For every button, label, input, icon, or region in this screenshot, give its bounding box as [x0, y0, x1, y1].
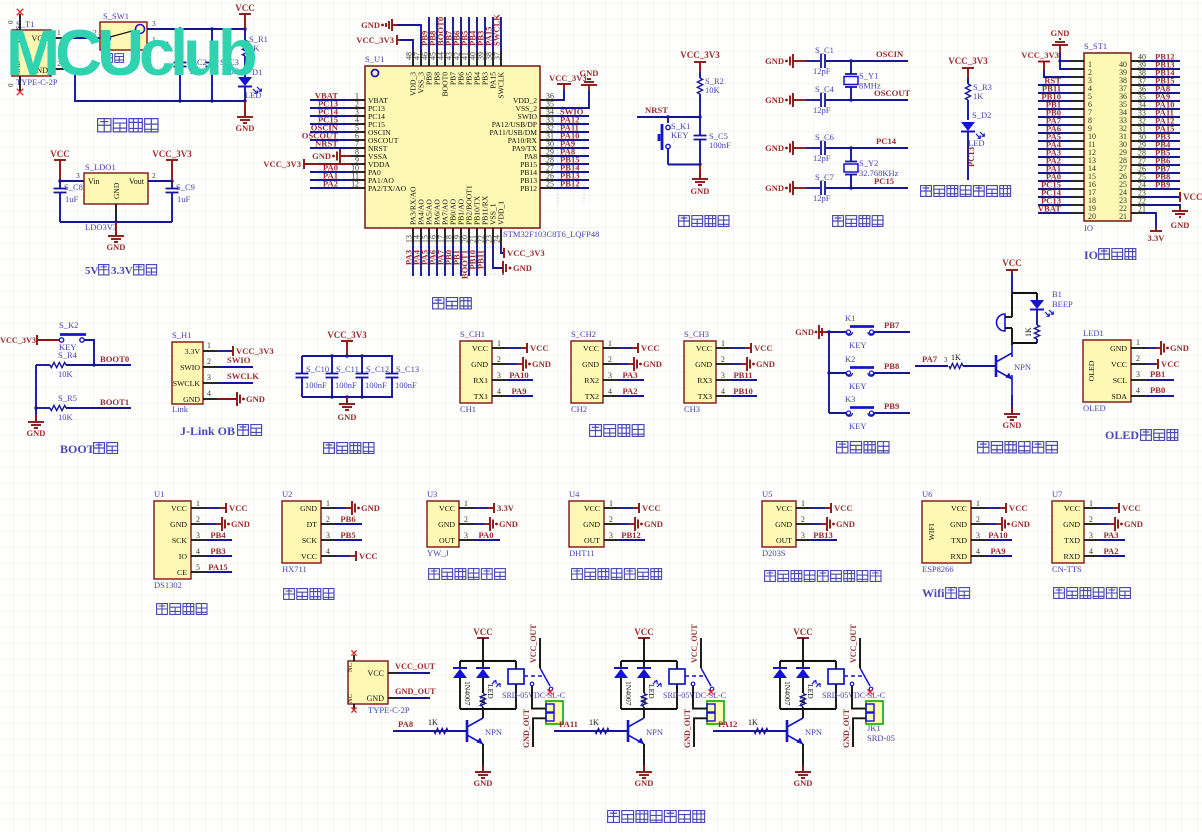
svg-text:S_C6: S_C6: [815, 132, 834, 142]
pin 47 VSS_3: [413, 51, 426, 94]
pin 40 PB4: [469, 51, 482, 85]
pin 22 PB11/RX: [477, 195, 490, 244]
title 串口电路: [590, 425, 644, 437]
pin 2 GND: [459, 515, 474, 524]
pin 4 TX2: [603, 387, 618, 396]
wire net PB7: [874, 320, 910, 332]
IC S_CH1 CH1: [460, 329, 492, 414]
svg-text:5V: 5V: [85, 265, 99, 277]
pin 7 left: [1070, 108, 1092, 117]
svg-text:S_C4: S_C4: [815, 84, 835, 94]
svg-text:1: 1: [609, 499, 613, 508]
pin 31 right: [1119, 125, 1146, 142]
wire net PC15: [1038, 180, 1070, 190]
svg-text:GND: GND: [1063, 520, 1080, 529]
svg-text:8MHz: 8MHz: [859, 81, 881, 91]
svg-text:SWIO: SWIO: [180, 363, 200, 372]
svg-text:3.3V: 3.3V: [185, 347, 201, 356]
resistor 1K relay PA8: [478, 678, 487, 709]
svg-text:2: 2: [721, 355, 725, 364]
svg-text:SCL: SCL: [1113, 376, 1128, 385]
IC U7 CN-TTS: [1052, 489, 1084, 574]
svg-text:IO: IO: [1084, 223, 1093, 233]
connector screw terminal PA12: [866, 701, 883, 724]
wire key K2 left: [829, 372, 846, 374]
power VCC at U5 pin1: [811, 503, 853, 513]
svg-text:Wifi: Wifi: [922, 586, 945, 600]
svg-text:U3: U3: [427, 489, 437, 499]
ground GND at VSS_1 pin23: [493, 244, 532, 275]
title 液位检测模块: [429, 569, 506, 580]
svg-text:1: 1: [721, 339, 725, 348]
pin 3 RX2: [603, 371, 618, 380]
svg-text:PB11: PB11: [733, 370, 752, 380]
ground GND at VSS_2 pin35: [554, 68, 598, 108]
svg-text:NPN: NPN: [1014, 362, 1031, 372]
wire net PB12: [619, 530, 645, 540]
svg-text:S_R4: S_R4: [58, 350, 78, 360]
pin 7 NRST: [351, 140, 388, 154]
svg-text:S_CH3: S_CH3: [684, 329, 709, 339]
svg-text:VCC_3V3: VCC_3V3: [680, 50, 720, 60]
svg-text:VCC: VCC: [301, 552, 317, 561]
svg-text:4: 4: [497, 387, 501, 396]
power VCC relay cell PA11: [634, 627, 654, 661]
svg-text:1: 1: [1089, 499, 1093, 508]
pin 19 left: [1070, 204, 1096, 213]
svg-text:KEY: KEY: [849, 381, 866, 391]
wire relay top rail PA11: [621, 660, 677, 662]
svg-text:GND: GND: [438, 520, 455, 529]
svg-text:2: 2: [1136, 354, 1140, 363]
power VCC_3V3 at VDDA pin9: [263, 159, 351, 169]
svg-text:3: 3: [976, 531, 980, 540]
svg-text:NPN: NPN: [646, 727, 663, 737]
pin 6 left: [1070, 100, 1092, 109]
pin 25 PB12: [520, 180, 554, 194]
LED D1: [238, 67, 262, 103]
svg-text:3: 3: [326, 531, 330, 540]
wire net PB10: [1038, 92, 1070, 102]
svg-text:20: 20: [1088, 212, 1096, 221]
svg-text:RXD: RXD: [951, 552, 968, 561]
power VCC_3V3 IO pin3: [1021, 50, 1070, 77]
wire net SWCLK: [492, 14, 502, 51]
svg-text:CH3: CH3: [684, 404, 700, 414]
wire net PA3: [1099, 530, 1125, 540]
svg-text:S_ST1: S_ST1: [1084, 41, 1107, 51]
svg-text:3: 3: [76, 171, 80, 180]
pin 31 PA10/RX: [508, 132, 554, 146]
svg-text:RX2: RX2: [584, 376, 599, 385]
svg-text:4: 4: [1089, 547, 1093, 556]
pin 46 PB9: [421, 51, 434, 85]
svg-text:S_Y1: S_Y1: [859, 71, 878, 81]
IC S_CH2 CH2: [571, 329, 603, 414]
svg-text:GND: GND: [765, 56, 784, 66]
svg-text:GND: GND: [532, 359, 551, 369]
IC LED1 OLED display: [1083, 328, 1131, 413]
svg-text:SCK: SCK: [172, 536, 188, 545]
pin 16 PA6/AO: [429, 199, 442, 244]
svg-text:GND: GND: [583, 520, 600, 529]
resistor S_R3 1K: [965, 78, 992, 120]
connector TYPE-C-2P relay supply: [347, 661, 410, 715]
svg-text:PA9: PA9: [990, 546, 1005, 556]
wire net VBAT: [310, 91, 351, 101]
pin 25 right: [1119, 173, 1146, 190]
pin 2 GND: [796, 515, 811, 524]
svg-text:VCC: VCC: [473, 627, 493, 637]
svg-text:VCC: VCC: [1183, 192, 1202, 202]
svg-text:PB12: PB12: [560, 179, 580, 189]
svg-text:12pF: 12pF: [813, 105, 831, 115]
wire net PB8: [1145, 172, 1180, 182]
title 5V转3.3V电路: [85, 265, 157, 277]
diode 1N4007 PA12: [773, 661, 792, 709]
pin 23 right: [1119, 189, 1146, 206]
svg-text:YW_J: YW_J: [427, 548, 449, 558]
power VCC relay cell PA12: [793, 627, 813, 661]
pin 12 left: [1070, 148, 1096, 157]
pin 2 GND: [971, 515, 986, 524]
svg-text:VCC: VCC: [584, 504, 600, 513]
wire net PB4: [206, 530, 232, 540]
svg-text:GND: GND: [795, 327, 814, 337]
power VCC_3V3 at VDD_2 pin36: [549, 73, 587, 100]
transistor NPN alarm: [996, 345, 1031, 395]
power VCC at S_CH3 pin1: [731, 343, 773, 353]
svg-text:VCC: VCC: [1111, 360, 1127, 369]
pin 10 left: [1070, 132, 1096, 141]
wire relay output bottom GND_OUT PA12: [842, 708, 866, 748]
pin 36 right: [1119, 85, 1146, 102]
svg-text:GND: GND: [1011, 519, 1030, 529]
svg-text:SWIO: SWIO: [227, 355, 251, 365]
svg-text:TXD: TXD: [951, 536, 967, 545]
svg-text:3.3V: 3.3V: [1148, 233, 1166, 243]
svg-text:ESP8266: ESP8266: [922, 564, 954, 574]
pin 2 GND: [492, 355, 507, 364]
svg-text:32.768KHz: 32.768KHz: [859, 168, 899, 178]
svg-text:S_H1: S_H1: [172, 330, 191, 340]
pin 2 GND: [604, 515, 619, 524]
svg-text:100nF: 100nF: [305, 380, 327, 390]
title 晶振电路: [833, 216, 883, 227]
svg-text:U2: U2: [282, 489, 292, 499]
svg-text:OUT: OUT: [584, 536, 600, 545]
transistor NPN relay PA12: [787, 709, 822, 768]
wire relay output bottom GND_OUT PA8: [522, 708, 546, 748]
pin 26 PB13: [520, 172, 554, 186]
wire net PA11: [554, 123, 589, 133]
svg-text:GND: GND: [499, 519, 518, 529]
regulator S_LDO1 LDO3V3: [84, 162, 148, 232]
svg-text:VCC_3V3: VCC_3V3: [152, 149, 192, 159]
pin 48 VDD_3: [405, 51, 418, 96]
svg-text:10K: 10K: [58, 412, 74, 422]
svg-text:3: 3: [1089, 531, 1093, 540]
svg-text:KEY: KEY: [849, 340, 866, 350]
svg-text:3: 3: [464, 531, 468, 540]
no-connect switch pin1: [147, 35, 168, 48]
svg-text:OUT: OUT: [776, 536, 792, 545]
power VCC at U2 pin4: [336, 551, 378, 561]
power VCC relay cell PA8: [473, 627, 493, 661]
svg-text:GND: GND: [236, 123, 255, 133]
pin 4 IO: [191, 547, 206, 556]
wire relay top rail PA8: [460, 660, 516, 662]
svg-text:VCC: VCC: [583, 344, 599, 353]
pin 23 VSS_1: [485, 203, 498, 244]
pin 3 PC14: [351, 108, 385, 122]
title 声光报警电路: [978, 442, 1058, 453]
svg-text:KEY: KEY: [671, 130, 688, 140]
power VCC: [235, 3, 255, 29]
resistor 1K base alarm: [915, 353, 996, 369]
pin 4 VCC: [321, 547, 336, 556]
ground GND at U1 pin2: [206, 517, 250, 531]
power VCC at U4 pin1: [619, 503, 661, 513]
wire net PB9: [874, 401, 910, 413]
svg-text:S_C8: S_C8: [64, 182, 83, 192]
wire net PA10: [1145, 100, 1180, 110]
svg-text:VCC: VCC: [359, 551, 378, 561]
wire net PC14: [1038, 188, 1070, 198]
no-connect TYPE-C-2P bottom: [351, 704, 356, 713]
svg-text:GND: GND: [27, 428, 46, 438]
pin 44 BOOT0: [437, 51, 450, 96]
svg-text:VCC: VCC: [50, 149, 70, 159]
svg-text:JK1: JK1: [867, 723, 881, 733]
ground GND at S_C6: [765, 141, 806, 155]
power VCC alarm: [1002, 258, 1022, 293]
svg-text:GND_OUT: GND_OUT: [395, 687, 436, 696]
switch S_K2 KEY: [59, 320, 86, 352]
no-connect pin S_T1 bottom: [7, 76, 23, 95]
svg-text:VCC_3V3: VCC_3V3: [263, 159, 301, 169]
svg-text:GND: GND: [644, 519, 663, 529]
ground GND power block: [236, 101, 255, 133]
wire net OSCIN: [310, 123, 351, 133]
svg-text:LED: LED: [968, 138, 985, 148]
svg-text:PB12: PB12: [520, 184, 537, 193]
svg-text:1uF: 1uF: [177, 194, 191, 204]
svg-text:PB12: PB12: [621, 530, 641, 540]
svg-text:2: 2: [801, 515, 805, 524]
svg-text:TYPE-C-2P: TYPE-C-2P: [368, 705, 410, 715]
svg-text:1N4007: 1N4007: [783, 681, 792, 706]
svg-text:3: 3: [721, 371, 725, 380]
title J-Link OB接口: [180, 424, 262, 438]
svg-text:GND: GND: [338, 412, 357, 422]
svg-text:GND: GND: [312, 151, 331, 161]
title 主芯片: [433, 298, 472, 309]
svg-text:VBAT: VBAT: [1038, 204, 1062, 214]
svg-text:S_C1: S_C1: [815, 45, 834, 55]
wire net PA1: [310, 171, 351, 181]
title Wifi模块: [922, 586, 970, 600]
svg-text:GND: GND: [112, 182, 121, 199]
resistor S_R5 10K: [36, 393, 94, 422]
svg-text:MCUclub: MCUclub: [6, 16, 256, 89]
title 滤波电路: [324, 443, 374, 454]
pin 22 right: [1119, 197, 1146, 214]
net label PC14: [876, 136, 897, 146]
pin 2 GND: [603, 355, 618, 364]
pin 17 left: [1070, 188, 1096, 197]
svg-text:VCC: VCC: [472, 344, 488, 353]
pin 16 left: [1070, 180, 1096, 189]
power VCC_3V3 boot: [0, 335, 59, 345]
ground GND at VSSA pin8: [312, 149, 351, 163]
pin 9 left: [1070, 124, 1092, 133]
wire key K1 left: [829, 331, 846, 333]
pin 8 left: [1070, 116, 1092, 125]
wire net BOOT1: [94, 397, 131, 408]
svg-text:1K: 1K: [973, 91, 984, 101]
svg-text:PA8: PA8: [398, 719, 414, 729]
svg-text:VCC_OUT: VCC_OUT: [690, 624, 699, 663]
capacitor S_C6 12pF: [806, 132, 908, 163]
watermark MCUclub: [6, 16, 256, 89]
wire net PA11 base: [554, 718, 628, 734]
pin 8 VSSA: [351, 148, 388, 162]
svg-text:1: 1: [608, 339, 612, 348]
net label PC15: [874, 176, 894, 186]
svg-text:1: 1: [1136, 338, 1140, 347]
ground GND IO pin22: [1145, 205, 1189, 230]
svg-text:GND_OUT: GND_OUT: [683, 708, 692, 748]
wire relay bottom rail PA11: [621, 708, 677, 710]
wire net PB8: [428, 17, 438, 51]
title IO拓展口: [1084, 248, 1136, 262]
connector S_T1 TYPE-C-2P: [12, 19, 58, 87]
pin 3 OUT: [459, 531, 474, 540]
svg-text:VCC_3V3: VCC_3V3: [948, 56, 988, 66]
wire net PC13: [1038, 196, 1070, 206]
wire relay bottom rail PA12: [780, 708, 836, 710]
svg-text:VCC: VCC: [776, 504, 792, 513]
wire alarm top rail: [1012, 293, 1037, 316]
wire net PB10: [468, 244, 478, 276]
title 温湿度检测模块: [572, 569, 662, 580]
wire net PB14: [554, 163, 589, 173]
svg-text:K3: K3: [845, 394, 855, 404]
wire net PC14: [310, 107, 351, 117]
IC U4 DHT11: [569, 489, 604, 558]
svg-text:PA2: PA2: [323, 179, 338, 189]
pin 12 PA2/TX/AO: [351, 180, 407, 194]
pin 45 PB8: [429, 51, 442, 85]
no-connect pin S_T1 top: [7, 9, 23, 30]
pin 14 PA4/AO: [413, 199, 426, 244]
svg-text:5: 5: [196, 563, 200, 572]
power VCC for LDO: [50, 149, 70, 181]
pin 10 PA0: [351, 164, 381, 178]
pin 28 right: [1119, 149, 1146, 166]
svg-text:DHT11: DHT11: [569, 548, 595, 558]
pin 42 PB6: [453, 51, 466, 85]
pin 4 GND: [203, 389, 265, 406]
svg-text:BEEP: BEEP: [1052, 299, 1073, 309]
svg-text:PA12: PA12: [718, 719, 737, 729]
power VCC_3V3 filter: [327, 330, 367, 356]
pin 24 VDD_1: [493, 201, 506, 244]
svg-text:IO: IO: [1084, 248, 1098, 262]
wire net PA1: [1038, 164, 1070, 174]
power VCC_3V3 at VDD_1 pin24: [501, 244, 545, 258]
capacitor S_C11 100nF: [326, 356, 359, 397]
svg-text:2: 2: [326, 515, 330, 524]
relay contact switch PA11: [685, 624, 714, 695]
wire net PC13 indicator: [966, 132, 976, 180]
svg-text:DT: DT: [307, 520, 318, 529]
svg-text:S_U1: S_U1: [365, 54, 384, 64]
wire boot left rail: [34, 365, 37, 415]
svg-text:PB3: PB3: [210, 546, 225, 556]
pin 4 TX3: [716, 387, 731, 396]
svg-text:GND: GND: [231, 519, 250, 529]
svg-text:HX711: HX711: [282, 564, 307, 574]
pin 15 left: [1070, 172, 1096, 181]
wire net PB3: [206, 546, 232, 556]
svg-text:K2: K2: [845, 354, 855, 364]
pin 27 right: [1119, 157, 1146, 174]
connector S_H1 J-Link: [172, 330, 203, 414]
svg-text:GND: GND: [635, 778, 654, 788]
svg-text:3: 3: [196, 531, 200, 540]
svg-text:12pF: 12pF: [813, 66, 831, 76]
LED relay PA12: [796, 661, 820, 699]
svg-text:1: 1: [801, 499, 805, 508]
svg-text:CE: CE: [177, 568, 187, 577]
wire relay output top PA12: [852, 686, 866, 709]
pin 32 PA11/USB/DM: [489, 124, 554, 138]
wire net PA6: [1038, 124, 1070, 134]
wire net PB12: [554, 179, 589, 189]
wire net PB1: [452, 244, 462, 276]
svg-text:2: 2: [497, 355, 501, 364]
resistor 1K relay PA11: [639, 678, 648, 709]
svg-text:U4: U4: [569, 489, 580, 499]
svg-text:VCC_OUT: VCC_OUT: [395, 662, 436, 671]
pin 20 left: [1070, 212, 1096, 221]
power 3.3V IO pin21: [1145, 213, 1165, 243]
svg-text:VCC: VCC: [1161, 359, 1180, 369]
svg-text:3: 3: [608, 371, 612, 380]
svg-text:S_K2: S_K2: [59, 320, 78, 330]
pin 39 right: [1119, 61, 1146, 78]
wire net PA8: [1145, 84, 1180, 94]
capacitor S_C2 10uF: [174, 29, 207, 101]
wire net PA4: [1038, 140, 1070, 150]
pin 30 right: [1119, 133, 1146, 150]
relay coil SRD-05VDC-SL-C PA12: [822, 661, 885, 709]
capacitor S_C5 100nF: [694, 117, 732, 165]
svg-text:3: 3: [207, 373, 211, 382]
svg-text:PB13: PB13: [813, 530, 833, 540]
svg-text:3.3V: 3.3V: [111, 265, 133, 277]
svg-text:S_C10: S_C10: [306, 364, 329, 374]
svg-text:NC: NC: [347, 694, 354, 703]
svg-text:VCC: VCC: [642, 503, 661, 513]
wire net PA2: [1038, 156, 1070, 166]
svg-text:PA2: PA2: [1103, 546, 1118, 556]
crystal S_Y1 8MHz: [844, 61, 881, 100]
pin 5 OSCIN: [351, 124, 391, 138]
buzzer B1 BEEP: [997, 289, 1074, 343]
